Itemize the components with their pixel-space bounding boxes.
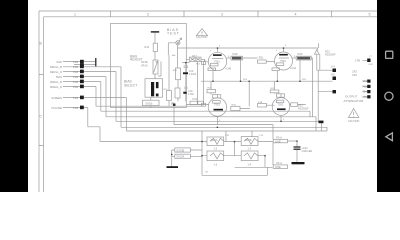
svg-text:3: 3 — [221, 12, 223, 16]
svg-text:GN1: GN1 — [369, 64, 374, 66]
svg-text:4: 4 — [295, 12, 297, 16]
svg-text:RJ2000F: RJ2000F — [325, 52, 336, 56]
svg-text:BIAS: BIAS — [56, 75, 62, 79]
svg-text:R20: R20 — [298, 52, 303, 56]
svg-text:SCREEN: SCREEN — [51, 96, 62, 100]
svg-text:LINE: LINE — [275, 165, 281, 169]
svg-text:LINE: LINE — [275, 139, 281, 143]
svg-text:R17: R17 — [192, 55, 197, 58]
svg-text:R21: R21 — [259, 56, 264, 60]
svg-text:RJ2000F: RJ2000F — [298, 107, 309, 111]
svg-text:5: 5 — [369, 12, 371, 16]
svg-text:R1A: R1A — [232, 104, 237, 107]
svg-text:P1B: P1B — [73, 96, 78, 100]
svg-text:+C4B: +C4B — [225, 68, 231, 71]
svg-text:CAUTION: CAUTION — [348, 120, 359, 123]
svg-text:5V1B: 5V1B — [146, 102, 153, 106]
svg-text:SELECT: SELECT — [124, 84, 137, 88]
svg-text:CR3: CR3 — [352, 74, 357, 77]
svg-text:USB LED: USB LED — [302, 150, 313, 153]
svg-text:1-3: 1-3 — [214, 163, 218, 166]
svg-text:CAUTION: CAUTION — [196, 36, 207, 39]
svg-text:7591: 7591 — [214, 103, 220, 107]
svg-text:1-4: 1-4 — [248, 163, 252, 166]
svg-text:P1B: P1B — [73, 60, 78, 64]
svg-text:ATTENUATOR: ATTENUATOR — [344, 99, 365, 103]
svg-text:5V13B: 5V13B — [177, 148, 185, 152]
svg-text:P1B: P1B — [362, 86, 367, 89]
svg-text:2: 2 — [147, 12, 149, 16]
svg-text:1 PB: 1 PB — [355, 60, 361, 63]
svg-text:P1B: P1B — [73, 75, 78, 79]
svg-text:1-2: 1-2 — [214, 148, 218, 151]
svg-text:C31: C31 — [362, 80, 367, 83]
svg-text:VOLUME: VOLUME — [51, 106, 62, 110]
svg-text:P1B: P1B — [73, 80, 78, 84]
svg-text:P1B: P1B — [73, 70, 78, 74]
svg-text:DL1B: DL1B — [245, 138, 252, 142]
svg-text:P13: P13 — [193, 97, 198, 101]
svg-text:+C4A: +C4A — [290, 67, 296, 70]
svg-text:C3A: C3A — [362, 91, 367, 94]
svg-text:1Y6: 1Y6 — [331, 74, 336, 77]
svg-text:P1B: P1B — [73, 65, 78, 69]
svg-text:GND: GND — [56, 60, 62, 64]
svg-text:1.00uF: 1.00uF — [189, 73, 197, 76]
svg-text:1-2: 1-2 — [248, 148, 252, 151]
svg-text:1.00u: 1.00u — [188, 93, 195, 96]
svg-text:5V13A: 5V13A — [177, 155, 185, 159]
svg-text:1Y4: 1Y4 — [331, 66, 336, 69]
svg-text:P3-A: P3-A — [276, 161, 282, 165]
svg-text:MRELL_R: MRELL_R — [50, 85, 62, 89]
svg-text:7591: 7591 — [280, 59, 286, 63]
svg-text:P1B: P1B — [73, 85, 78, 89]
svg-text:P1B: P1B — [73, 106, 78, 110]
svg-text:TEST: TEST — [167, 32, 180, 36]
svg-text:7591: 7591 — [278, 102, 284, 106]
svg-text:R11: R11 — [145, 45, 150, 49]
svg-text:1: 1 — [74, 12, 76, 16]
svg-text:VR1A: VR1A — [141, 65, 148, 68]
svg-text:DL1A: DL1A — [211, 138, 218, 142]
svg-text:R19: R19 — [233, 52, 238, 56]
svg-text:P3-A: P3-A — [276, 136, 282, 140]
svg-text:7591: 7591 — [214, 60, 220, 64]
svg-text:REFILL_B: REFILL_B — [50, 65, 62, 69]
svg-text:R1B: R1B — [258, 102, 263, 104]
svg-text:REFILL_R: REFILL_R — [50, 70, 62, 74]
svg-text:P12: P12 — [172, 102, 177, 106]
svg-text:MRELL_B: MRELL_B — [50, 80, 62, 84]
